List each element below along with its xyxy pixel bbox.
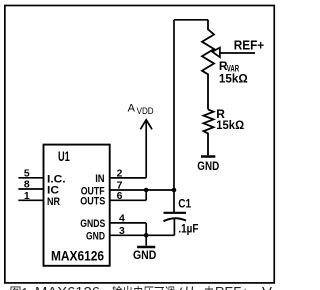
svg-text:3: 3 [119,226,125,237]
svg-text:1: 1 [24,191,30,202]
potentiometer wiper arrow [212,48,220,58]
wire OUTS riser [145,190,147,200]
wire ground stem [145,235,147,245]
C1 curved plate [164,218,187,221]
ground (under pin 3) [137,246,155,249]
svg-text:C1: C1 [178,197,191,211]
svg-text:GND: GND [133,248,157,262]
svg-text:REF+: REF+ [234,38,265,53]
svg-text:.1µF: .1µF [178,222,198,236]
pin 1 stub wire [18,199,43,201]
wire AVDD riser [145,121,147,178]
svg-text:15kΩ: 15kΩ [219,72,248,86]
wire C1 top stem [173,190,175,213]
svg-text:A: A [128,102,136,114]
pin 3 wire (GND to C1 bottom) [110,234,175,236]
svg-text:MAX6126: MAX6126 [51,248,104,264]
wire wiper to REF+ [220,52,255,54]
svg-text:OUTS: OUTS [80,196,105,208]
svg-text:REF+: REF+ [215,284,249,290]
svg-text:GND: GND [197,159,219,173]
junction node OUTF/OUTS [144,188,149,193]
svg-text:MAX6126: MAX6126 [35,284,100,290]
wire REF riser (top rail down to node) [173,20,175,190]
svg-text:5: 5 [24,168,30,179]
IC U1 MAX6126 body [44,145,110,266]
svg-text:4: 4 [119,214,125,225]
svg-text:(从: (从 [178,285,197,290]
resistor RVAR (potentiometer) [202,20,214,110]
ground (under R) [201,155,215,158]
svg-text:I.C.: I.C. [47,173,66,185]
wire top rail [174,19,208,21]
svg-text:VDD: VDD [137,106,154,116]
pin 8 stub wire [18,188,43,190]
pin 7 wire (OUTF to REF node) [110,189,174,191]
wire C1 bottom stem [173,219,175,236]
svg-text:GND: GND [86,230,105,242]
pin 6 wire (OUTS) [110,199,147,201]
C1 top plate [164,212,187,214]
svg-text:IC: IC [47,185,59,197]
junction node REF (riser/OUTF/C1) [172,188,177,193]
svg-text:V: V [262,284,272,290]
resistor R [204,109,214,155]
junction node GND [144,233,149,238]
svg-text:GNDS: GNDS [80,218,105,230]
pin 4 wire (GNDS) [110,222,147,224]
svg-text:NR: NR [47,196,60,208]
svg-text:输出电压可调: 输出电压可调 [112,285,175,290]
svg-text:U1: U1 [58,148,70,164]
svg-text:6: 6 [117,191,123,202]
svg-text:8: 8 [24,180,30,191]
svg-text:IN: IN [95,173,104,185]
AVDD arrowhead [140,120,152,130]
svg-text:2: 2 [117,169,123,180]
wire GNDS riser [145,223,147,235]
svg-text:15kΩ: 15kΩ [216,118,244,132]
pin 5 stub wire [18,177,43,179]
pin 2 wire (IN to AVDD riser) [110,177,147,179]
svg-text:图1.: 图1. [10,285,32,290]
svg-text:由: 由 [204,285,214,290]
